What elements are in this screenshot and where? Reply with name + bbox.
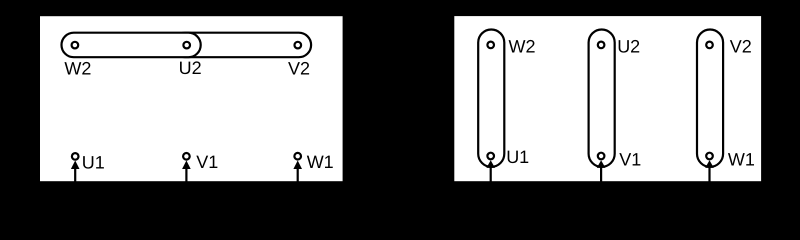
supply wire L3 (708, 167, 710, 195)
terminal U2 (183, 42, 190, 49)
terminal W1 (294, 153, 301, 160)
arrow L2 (182, 161, 191, 170)
terminal V1 (183, 153, 190, 160)
terminal V2 (295, 42, 302, 49)
link bar U2-V2 (173, 33, 311, 58)
link bar W2-U1 (478, 30, 504, 167)
arrow L2 (597, 160, 606, 168)
terminal U1 (72, 153, 79, 160)
arrow L1 (71, 161, 80, 170)
svg-text:W2: W2 (64, 59, 91, 79)
svg-text:U2: U2 (617, 36, 640, 56)
svg-text:W1: W1 (307, 152, 334, 172)
link bar V2-W1 (697, 30, 723, 167)
terminal U1 (487, 153, 494, 160)
terminal V2 (706, 42, 713, 49)
supply wire L1 (74, 168, 76, 195)
link bar U2-V1 (589, 30, 615, 167)
svg-text:U1: U1 (506, 147, 529, 167)
terminal W2 (72, 42, 79, 49)
terminal W2 (487, 42, 494, 49)
svg-text:V1: V1 (196, 152, 218, 172)
svg-text:V1: V1 (619, 150, 641, 170)
terminal box (delta connection) (453, 15, 762, 182)
svg-text:W2: W2 (509, 37, 536, 57)
terminal U2 (598, 42, 605, 49)
arrow L3 (705, 160, 714, 168)
svg-text:V2: V2 (288, 58, 310, 78)
svg-text:W1: W1 (728, 149, 755, 169)
supply wire L2 (185, 168, 187, 195)
arrow L3 (293, 161, 302, 170)
svg-text:V2: V2 (730, 37, 752, 57)
supply wire L1 (490, 167, 492, 195)
terminal box (star connection) (39, 15, 344, 182)
svg-text:U1: U1 (82, 152, 105, 172)
terminal V1 (598, 153, 605, 160)
link bar W2-U2 (62, 33, 201, 58)
supply wire L2 (600, 167, 602, 195)
terminal W1 (706, 153, 713, 160)
arrow L1 (486, 160, 495, 168)
supply wire L3 (297, 168, 299, 195)
svg-text:U2: U2 (179, 58, 202, 78)
